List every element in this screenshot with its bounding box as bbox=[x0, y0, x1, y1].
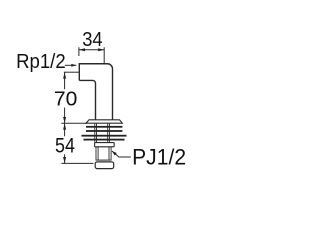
dim 54: bottom extension line bbox=[61, 162, 93, 164]
dim 34: dimension line with arrows bbox=[79, 49, 104, 51]
lower stem thread lines bbox=[96, 147, 111, 161]
washer bar A bbox=[86, 126, 122, 128]
elbow body outline bbox=[79, 64, 112, 120]
wide washer bar C bbox=[82, 135, 127, 137]
svg-text:34: 34 bbox=[82, 29, 102, 51]
locknut bar B bbox=[86, 130, 122, 132]
label PJ1/2 leader arrow bbox=[112, 151, 131, 157]
svg-text:Rp1/2: Rp1/2 bbox=[16, 50, 66, 73]
washer bar D bbox=[84, 139, 125, 141]
dim 54: dimension line bbox=[64, 124, 66, 164]
flange trapezoid bbox=[86, 120, 122, 123]
dim 34: extension lines bbox=[79, 47, 104, 63]
upper stem thread lines bbox=[95, 124, 110, 143]
svg-text:70: 70 bbox=[54, 88, 77, 110]
dim 70: shared extension line at flange base bbox=[61, 122, 87, 124]
stem end line bbox=[96, 159, 112, 161]
svg-text:54: 54 bbox=[55, 135, 75, 158]
hex nut bbox=[95, 143, 115, 147]
label Rp1/2 leader arrow bbox=[65, 64, 77, 66]
svg-text:PJ1/2: PJ1/2 bbox=[132, 145, 186, 170]
dim 70: top extension line bbox=[64, 71, 80, 73]
bottom cap nut bbox=[95, 162, 114, 169]
dim 70: dimension line bbox=[64, 73, 66, 124]
